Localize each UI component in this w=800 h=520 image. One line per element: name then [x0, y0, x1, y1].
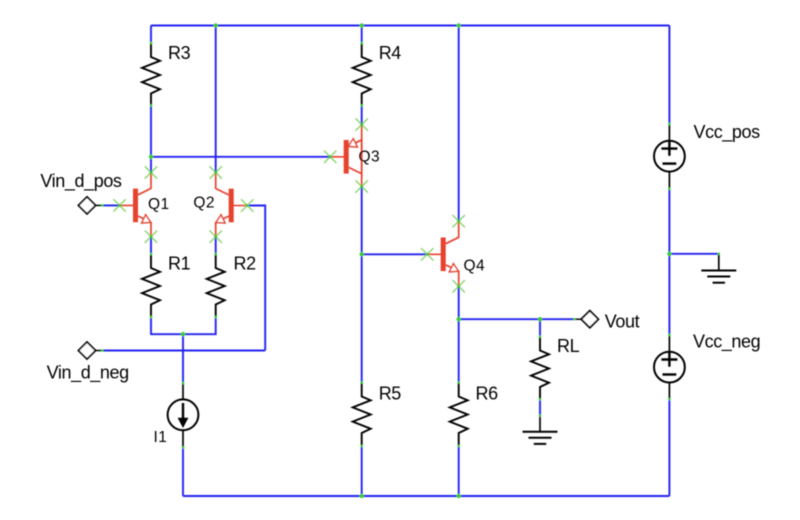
node R4 tap on top rail: [360, 23, 364, 27]
wire R1 R2 tail connector: [151, 317, 216, 334]
resistor RL: [531, 335, 580, 401]
wire Vin_d_neg rail: [102, 350, 265, 352]
wire R6 bottom to bottom rail: [458, 446, 460, 496]
wire bottom rail: [183, 495, 669, 497]
wire R5 bottom to bottom rail: [361, 446, 363, 496]
node R3 bottom / Q1 collector / Q3 base: [149, 155, 153, 159]
wire base node to Q1 collector: [150, 157, 152, 173]
wire RL bottom to ground: [539, 400, 541, 416]
wire top rail to Q2 collector: [215, 26, 217, 173]
wire top rail to Q4 collector: [458, 26, 460, 222]
svg-text:Q1: Q1: [148, 196, 169, 213]
resistor R2: [207, 253, 256, 319]
wire Vout node to R6: [458, 319, 460, 382]
node Q3 collector / Q4 base / R5: [360, 252, 364, 256]
node R1 R2 tail midpoint: [181, 332, 185, 336]
wire top supply rail: [151, 25, 669, 27]
voltage source Vcc_pos: [654, 122, 760, 190]
ground at supply midpoint: [701, 253, 736, 283]
wire supply ground branch: [669, 253, 718, 255]
svg-text:R1: R1: [168, 254, 191, 274]
wire Q2 emitter to R2: [215, 237, 217, 254]
current source I1: [154, 382, 199, 449]
resistor R3: [142, 42, 191, 107]
transistor Q1: [113, 166, 169, 243]
wire tail node to I1: [182, 334, 184, 383]
resistor R5: [353, 381, 402, 447]
svg-text:Vout: Vout: [605, 312, 640, 332]
port Vout: [573, 311, 639, 332]
wire Q2 base riser: [249, 206, 265, 351]
svg-text:R6: R6: [476, 384, 499, 404]
svg-text:Vin_d_pos: Vin_d_pos: [40, 171, 122, 192]
resistor R6: [450, 381, 498, 447]
node R5 on bottom rail: [360, 494, 364, 498]
wire top rail to R4: [361, 26, 363, 44]
wire Vcc_pos to Vcc_neg: [668, 189, 670, 335]
wire Vout rail to RL: [539, 319, 541, 336]
svg-text:R4: R4: [379, 43, 402, 63]
svg-text:I1: I1: [154, 429, 168, 446]
svg-text:Q3: Q3: [359, 149, 380, 166]
port Vin_d_neg: [47, 342, 129, 384]
wire Vcc_neg to bottom rail: [668, 399, 670, 496]
ground below RL: [523, 414, 558, 444]
svg-text:Q2: Q2: [193, 194, 214, 211]
svg-text:Vin_d_neg: Vin_d_neg: [47, 363, 129, 384]
node R6 on bottom rail: [457, 494, 461, 498]
svg-text:R5: R5: [379, 384, 402, 404]
wire R4 bottom to Q3 emitter: [361, 106, 363, 125]
wire Q1 emitter to R1: [150, 237, 152, 254]
wire base node to Q3 base: [151, 156, 331, 158]
svg-text:Q4: Q4: [464, 258, 485, 275]
node Q2 collector tap on top rail: [214, 23, 218, 27]
transistor Q2: [193, 166, 253, 243]
wire I1 bottom to bottom rail: [182, 448, 184, 497]
node Q4 collector tap on top rail: [457, 23, 461, 27]
transistor Q4: [421, 215, 485, 293]
wire Vout node to port: [459, 318, 575, 320]
wire top rail to Vcc_pos: [668, 26, 670, 125]
port Vin_d_pos: [40, 171, 122, 214]
svg-text:R3: R3: [168, 43, 191, 63]
node RL tap on Vout rail: [538, 317, 542, 321]
svg-text:R2: R2: [234, 254, 257, 274]
voltage source Vcc_neg: [654, 332, 760, 401]
svg-text:RL: RL: [557, 336, 580, 356]
wire node to R5: [361, 254, 363, 382]
transistor Q3: [324, 118, 380, 192]
node Q4 emitter / R6 / Vout: [457, 317, 461, 321]
wire top rail to R3: [150, 26, 152, 44]
wire node to Q4 base: [362, 253, 426, 255]
resistor R1: [142, 253, 191, 319]
resistor R4: [353, 42, 402, 107]
svg-text:Vcc_neg: Vcc_neg: [693, 332, 760, 353]
node ground tap on supply rail: [667, 252, 671, 256]
wire Q3 collector to Q4 base node: [361, 187, 363, 255]
svg-text:Vcc_pos: Vcc_pos: [694, 122, 761, 143]
wire Vin_d_pos to Q1 base: [102, 204, 120, 206]
wire R3 bottom to base node: [150, 106, 152, 157]
wire Q4 emitter to Vout node: [458, 286, 460, 319]
